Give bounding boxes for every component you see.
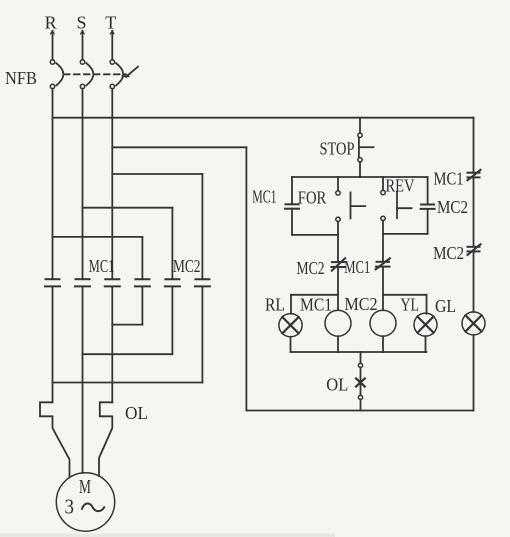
contact MC1 pole 3 <box>105 279 120 286</box>
svg-text:FOR: FOR <box>298 188 327 208</box>
svg-text:MC1: MC1 <box>344 257 370 277</box>
motor M circle <box>56 473 114 531</box>
svg-text:T: T <box>105 13 116 33</box>
svg-text:MC2: MC2 <box>437 197 468 217</box>
svg-text:MC2: MC2 <box>345 294 378 314</box>
wire MC2 output swap to T column <box>112 286 142 324</box>
scan smudge bottom edge <box>0 534 335 537</box>
svg-text:MC2: MC2 <box>433 243 464 263</box>
svg-text:MC1: MC1 <box>89 256 115 276</box>
contact MC1 pole 2 <box>75 279 90 286</box>
svg-text:MC2: MC2 <box>173 256 201 276</box>
wire branch R to MC2 contact <box>53 237 143 279</box>
contact MC2 pole 3 <box>195 279 210 286</box>
lamp RL <box>279 314 302 352</box>
wire control right rail <box>473 118 475 411</box>
svg-text:MC2: MC2 <box>297 258 325 278</box>
wire control feed from T <box>112 146 246 148</box>
svg-text:REV: REV <box>386 176 415 196</box>
breaker NFB pole R <box>50 60 63 89</box>
svg-text:M: M <box>79 476 91 498</box>
wire RL branch bracket <box>291 295 338 314</box>
wire coil bottom bus <box>291 351 427 353</box>
breaker NFB pole T <box>110 60 123 89</box>
breaker NFB pole S <box>80 60 93 89</box>
wire control bottom rail <box>246 410 473 412</box>
wire branch T to MC2 contact <box>112 174 202 279</box>
wire box top rail <box>292 176 428 178</box>
wire T phase vertical <box>111 89 113 280</box>
contact MC1 NC on right rail <box>468 170 481 181</box>
wire R phase vertical <box>52 89 54 280</box>
wire S phase vertical <box>82 89 84 280</box>
contact MC2 NC on right rail <box>468 244 481 255</box>
contact MC2 holding <box>383 177 435 234</box>
svg-text:STOP: STOP <box>320 139 355 159</box>
coil MC1 <box>325 310 351 352</box>
svg-text:MC1: MC1 <box>434 168 464 188</box>
svg-text:NFB: NFB <box>5 68 37 88</box>
pushbutton REV <box>381 177 412 261</box>
contact MC2 pole 1 <box>135 279 150 286</box>
wire YL branch bracket <box>383 295 427 314</box>
coil MC2 <box>370 310 396 352</box>
overload heater OL right <box>99 402 112 476</box>
wire branch S to MC2 contact <box>83 208 173 280</box>
wire T supply drop with arrowhead <box>110 31 114 60</box>
wire S output to motor <box>82 286 84 473</box>
wire MC2 output swap to S column <box>83 286 173 354</box>
pushbutton STOP <box>358 118 374 177</box>
pushbutton FOR <box>336 177 365 262</box>
wire R supply drop with arrowhead <box>51 31 55 60</box>
motor sine symbol <box>82 504 104 512</box>
contact MC1 NC interlock on REV line <box>376 258 390 310</box>
svg-text:RL: RL <box>265 295 285 315</box>
svg-text:YL: YL <box>401 295 420 315</box>
wire control left rail <box>245 147 247 410</box>
contact MC1 holding <box>285 177 338 235</box>
svg-text:OL: OL <box>326 375 348 395</box>
svg-text:MC1: MC1 <box>300 295 332 315</box>
breaker NFB handle <box>123 67 139 77</box>
contact MC2 NC interlock on FOR line <box>332 258 346 310</box>
overload heater OL left <box>40 402 70 477</box>
wire R output to OL <box>52 286 54 402</box>
breaker NFB linkage dashed <box>64 73 126 75</box>
svg-text:3: 3 <box>65 495 75 519</box>
svg-text:GL: GL <box>435 296 456 316</box>
wire S supply drop with arrowhead <box>81 31 85 60</box>
wire T output to OL <box>111 286 113 402</box>
contact MC1 pole 1 <box>45 279 60 286</box>
svg-text:OL: OL <box>125 403 148 423</box>
contact MC2 pole 2 <box>165 279 180 286</box>
wire MC2 output swap to R column <box>53 286 203 382</box>
svg-text:S: S <box>76 13 86 33</box>
lamp GL <box>462 312 485 335</box>
contact OL trip <box>356 352 365 411</box>
svg-text:R: R <box>45 13 57 33</box>
lamp YL <box>414 313 437 352</box>
wire control feed top from R <box>53 117 474 119</box>
svg-text:MC1: MC1 <box>252 186 276 206</box>
